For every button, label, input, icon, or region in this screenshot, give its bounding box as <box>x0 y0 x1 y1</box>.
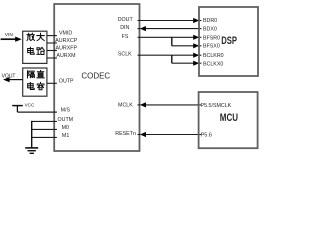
wire SCLK to BCLKR0 <box>138 54 195 56</box>
char 电 <box>28 47 35 54</box>
svg-text:M0: M0 <box>62 125 69 131</box>
char 容 <box>37 82 44 89</box>
wire P5.5/SMCLK to MCLK <box>145 104 199 106</box>
svg-text:RESETn: RESETn <box>115 131 136 137</box>
wire BDX0 to DIN <box>145 28 199 30</box>
DC-block capacitor block 隔直电容 <box>23 68 47 96</box>
CODEC block U1 <box>54 4 139 151</box>
svg-text:VCC: VCC <box>25 103 35 108</box>
ground symbol <box>25 147 38 149</box>
wire DOUT to BDR0 <box>138 20 195 22</box>
wire cap to OUTP <box>47 82 57 84</box>
wire M0 <box>31 128 57 130</box>
svg-text:BDX0: BDX0 <box>203 27 217 33</box>
svg-text:MCU: MCU <box>220 112 238 124</box>
wire P5.6 to RESETn <box>145 134 199 136</box>
branch wire SCLK to BCLKX0 <box>171 55 173 63</box>
svg-text:DIN: DIN <box>120 25 129 31</box>
svg-text:AURXCP: AURXCP <box>55 38 78 44</box>
svg-text:M1: M1 <box>62 133 69 139</box>
svg-text:BFSR0: BFSR0 <box>203 35 220 41</box>
char 大 <box>37 33 44 40</box>
branch wire FS to BFSX0 <box>171 37 173 46</box>
char 路 <box>37 47 44 54</box>
svg-text:VMID: VMID <box>59 30 72 36</box>
svg-text:AURXM: AURXM <box>56 53 75 59</box>
svg-text:CODEC: CODEC <box>81 71 110 81</box>
svg-text:BDR0: BDR0 <box>203 18 217 24</box>
wire OUTM <box>31 120 57 122</box>
svg-text:BCLKX0: BCLKX0 <box>203 62 223 68</box>
svg-text:BCLKR0: BCLKR0 <box>203 53 224 59</box>
VCC power symbol <box>12 105 23 107</box>
svg-text:OUTP: OUTP <box>59 79 74 85</box>
char 直 <box>37 71 44 78</box>
svg-text:P5.6: P5.6 <box>201 132 212 138</box>
wire FS to BFSR0 <box>138 36 195 38</box>
svg-text:VIN: VIN <box>5 32 14 38</box>
wire amp to AURXM <box>47 57 57 59</box>
svg-text:FS: FS <box>122 34 129 40</box>
svg-text:M/S: M/S <box>61 108 71 114</box>
wire amp to VMID <box>47 35 57 37</box>
DSP pin stubs <box>198 20 201 22</box>
wire VCC to M/S <box>17 111 57 113</box>
wire amp to AURXCP <box>47 42 57 44</box>
svg-text:DOUT: DOUT <box>118 17 134 23</box>
svg-text:SCLK: SCLK <box>118 51 132 57</box>
char 电 (second) <box>28 82 35 89</box>
wire M1 <box>31 136 57 138</box>
VIN input arrow wire <box>1 38 16 40</box>
svg-text:OUTM: OUTM <box>58 117 74 123</box>
char 放 <box>27 33 34 40</box>
MCU block <box>199 92 258 148</box>
MCU pin stubs <box>198 104 201 106</box>
svg-text:AURXFP: AURXFP <box>56 46 78 52</box>
char 隔 <box>27 71 34 78</box>
VOUT output arrow wire <box>8 79 23 81</box>
amplifier block 放大电路 <box>23 31 47 63</box>
svg-text:P5.5/SMCLK: P5.5/SMCLK <box>201 103 232 109</box>
svg-text:MCLK: MCLK <box>118 103 133 109</box>
wire amp to AURXFP <box>47 50 57 52</box>
svg-text:BFSX0: BFSX0 <box>203 44 220 50</box>
svg-text:DSP: DSP <box>221 35 237 47</box>
DSP block <box>199 7 258 76</box>
ground stem wire <box>31 121 33 148</box>
